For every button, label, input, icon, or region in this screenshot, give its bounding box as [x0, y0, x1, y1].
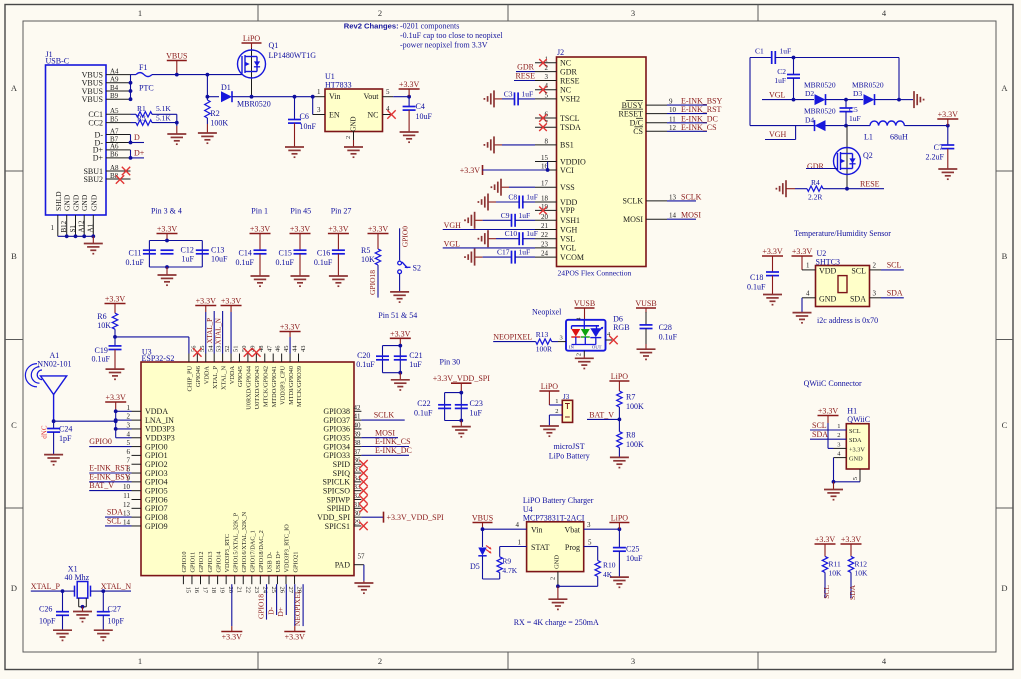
svg-text:+3.3V: +3.3V [105, 295, 126, 304]
svg-text:GPIO5: GPIO5 [145, 486, 168, 495]
svg-text:VGH: VGH [560, 225, 578, 234]
svg-text:RESE: RESE [860, 179, 880, 188]
pin 10 RESET of J2 [619, 109, 667, 118]
svg-text:44: 44 [292, 345, 299, 352]
svg-text:Vbat: Vbat [564, 526, 580, 535]
pin 5 Vout of U1 [383, 88, 412, 99]
capacitor C11 0.1uF [126, 249, 156, 268]
svg-text:U0RXD/GPIO44: U0RXD/GPIO44 [246, 365, 253, 410]
net label VGH (charge pump) [765, 126, 796, 140]
svg-text:D: D [134, 133, 140, 142]
svg-text:0.1uF: 0.1uF [747, 283, 766, 292]
svg-text:12: 12 [669, 124, 677, 132]
capacitor C10 1uF at J2 pin 22 [488, 229, 538, 245]
net label SDA at U3 pin 13 [105, 508, 132, 517]
svg-text:GPIO0: GPIO0 [145, 442, 168, 451]
svg-text:3: 3 [631, 8, 635, 18]
svg-text:+3.3V: +3.3V [390, 330, 411, 339]
svg-text:A8: A8 [110, 164, 119, 172]
svg-text:GPIO2: GPIO2 [145, 460, 168, 469]
svg-text:D1: D1 [221, 83, 231, 92]
node D+ (USB data plus) [129, 149, 145, 160]
capacitor C19 0.1uF [92, 345, 122, 363]
svg-text:NC: NC [367, 111, 378, 120]
svg-text:GPIO13: GPIO13 [207, 552, 214, 573]
svg-text:A5: A5 [110, 107, 119, 115]
capacitor C13 10uF [196, 245, 228, 263]
charger U4 MCP73831T-2ACI [527, 522, 584, 572]
pin 15 GPIO10 of U3 (bottom) [181, 552, 191, 594]
ground below C27 [94, 630, 113, 640]
svg-text:C15: C15 [279, 249, 292, 258]
ground below C15 [291, 254, 310, 286]
wire VBUS bus at J1 [129, 75, 136, 102]
svg-text:0.1uF: 0.1uF [236, 258, 255, 267]
svg-text:C21: C21 [409, 351, 422, 360]
resistor R10 4K [558, 561, 616, 587]
svg-text:10pF: 10pF [39, 617, 56, 626]
svg-text:3: 3 [587, 521, 591, 529]
ground below R2 [198, 124, 217, 143]
svg-text:GND: GND [554, 555, 561, 569]
svg-text:1: 1 [518, 538, 522, 546]
pin 42 GPIO38 of U3 [323, 404, 361, 416]
svg-text:VGL: VGL [560, 244, 577, 253]
svg-text:C14: C14 [239, 249, 252, 258]
svg-text:C24: C24 [59, 425, 72, 434]
ground below U4 [548, 586, 567, 609]
svg-text:Pin 45: Pin 45 [290, 207, 311, 216]
net label E-INK_CS at U3 pin 38 [361, 437, 410, 446]
pin 20 VSH1 of J2 [535, 213, 580, 225]
power VUSB at D6 [574, 299, 595, 320]
svg-text:40: 40 [354, 421, 362, 429]
svg-text:GPIO18/DAC_2: GPIO18/DAC_2 [258, 530, 265, 572]
sideways ground for C17 [465, 249, 475, 266]
pin 43 MTCK/GPIO39 of U3 (top) [296, 346, 307, 407]
svg-text:11: 11 [123, 492, 130, 500]
svg-text:VSH1: VSH1 [560, 216, 580, 225]
svg-text:10nF: 10nF [300, 122, 317, 131]
svg-text:SDA: SDA [850, 295, 866, 304]
pin 15 VDDIO of J2 [535, 154, 586, 166]
pin 28 GPIO21 of U3 (bottom) [292, 552, 302, 594]
wire antenna to U3 LNA_IN [52, 419, 118, 423]
pin 45 VDD3P3_CPU of U3 (top) [279, 346, 290, 405]
svg-text:+3.3V: +3.3V [792, 247, 813, 256]
svg-text:NN02-101: NN02-101 [37, 360, 71, 369]
svg-text:R12: R12 [855, 560, 868, 569]
ground below R8 [610, 457, 629, 467]
wire C20 C21 rails [383, 344, 403, 375]
svg-text:XTAL_N: XTAL_N [215, 318, 223, 345]
wire VCI to VDDIO [547, 162, 549, 171]
svg-text:GPIO4: GPIO4 [145, 478, 168, 487]
ground below D6 [575, 356, 594, 369]
resistor R12 10K [848, 556, 868, 600]
diode D2 MBR0520 [804, 80, 863, 105]
capacitor C7 2.2uF [926, 126, 955, 162]
pin 36 SPID of U3 [333, 457, 362, 469]
pin 47 MTCK/GPIO42 of U3 (top) [262, 345, 273, 407]
svg-text:VUSB: VUSB [574, 299, 595, 308]
LED D5 [470, 529, 492, 579]
resistor R11 10K [822, 556, 842, 598]
power +3.3V at U3 VDDA [105, 393, 126, 411]
pin 14 GPIO9 of U3 [123, 518, 168, 530]
svg-text:2.2R: 2.2R [808, 193, 822, 202]
svg-text:S2: S2 [413, 263, 421, 272]
no-connect X marks SBU1 SBU2 [116, 167, 130, 184]
inductor L1 68uH [864, 121, 950, 142]
svg-text:10pF: 10pF [108, 617, 125, 626]
svg-text:VBUS: VBUS [472, 514, 493, 523]
svg-text:20: 20 [541, 213, 549, 221]
svg-text:3: 3 [631, 656, 635, 666]
power LiPO at Q1 [242, 34, 262, 48]
pin 21 GPIO15/XTAL_32K_P of U3 (bottom) [232, 512, 242, 593]
pin 2 GND of U1 [345, 132, 354, 141]
pin 5 shield of H1 [832, 469, 860, 484]
svg-text:C9: C9 [501, 211, 510, 220]
svg-text:Pin 51 & 54: Pin 51 & 54 [378, 311, 417, 320]
pin 24 VCOM of J2 [535, 250, 584, 262]
pin 34 SPICLK of U3 [322, 474, 361, 486]
svg-text:5: 5 [127, 439, 131, 447]
pin 19 GPIO14 of U3 (bottom) [215, 551, 225, 593]
pin 2 GND of D6 [583, 351, 585, 356]
svg-text:57: 57 [358, 553, 366, 561]
wire R6 to U3 CHIP_PU [115, 337, 189, 354]
svg-text:BAT_V: BAT_V [589, 410, 614, 419]
capacitor C18 0.1uF [747, 272, 779, 292]
svg-text:J2: J2 [557, 48, 564, 57]
svg-text:STAT: STAT [531, 543, 550, 552]
svg-text:14: 14 [123, 518, 131, 526]
pin 30 VDD_SPI of U3 [317, 510, 361, 522]
svg-text:1uF: 1uF [409, 360, 422, 369]
svg-text:C1: C1 [755, 47, 764, 56]
svg-text:TSCL: TSCL [560, 114, 580, 123]
pin 17 GPIO12 of U3 (bottom) [198, 552, 208, 594]
svg-text:2: 2 [345, 136, 352, 139]
ground below C11-C13 [158, 267, 177, 285]
svg-text:D3: D3 [853, 89, 862, 98]
power +3.3V for C11-C13 [157, 225, 178, 243]
svg-text:GPIO45: GPIO45 [237, 366, 244, 387]
wire charge pump left rail [749, 58, 751, 126]
no-connect X on J2 pin 1 [539, 59, 547, 67]
power +3.3V at R11 [815, 535, 836, 556]
svg-text:USB D-: USB D- [267, 552, 274, 572]
svg-text:B8: B8 [110, 172, 119, 180]
svg-text:10K: 10K [97, 321, 111, 330]
svg-text:3: 3 [545, 73, 549, 81]
svg-text:-power neopixel from 3.3V: -power neopixel from 3.3V [400, 40, 488, 49]
ground below C14 [251, 254, 270, 286]
svg-text:48: 48 [258, 346, 265, 353]
svg-text:2: 2 [550, 577, 557, 580]
svg-text:SPID: SPID [333, 460, 351, 469]
svg-text:10uF: 10uF [211, 255, 228, 264]
power +3.3V at U1 output [399, 80, 420, 97]
svg-text:IN: IN [569, 344, 575, 349]
svg-text:+3.3V: +3.3V [106, 393, 127, 402]
svg-text:SPICS1: SPICS1 [325, 522, 350, 531]
capacitor C4 10uF [403, 97, 433, 121]
svg-text:9: 9 [669, 98, 673, 106]
svg-text:1: 1 [138, 656, 142, 666]
net label SCL at U3 pin 14 [105, 517, 132, 526]
pin 51 VDDA of U3 (top) [229, 346, 240, 385]
pin 5 GPIO0 of U3 [127, 439, 168, 451]
net label SCL at H1 pin 1 [810, 421, 846, 430]
svg-text:SCL: SCL [812, 421, 827, 430]
svg-text:MOSI: MOSI [375, 428, 395, 437]
capacitor C3 1uF at J2 pin 5 [494, 89, 535, 105]
pin 18 VDD of J2 [535, 195, 578, 207]
pin 10 GPIO5 of U3 [123, 483, 168, 495]
svg-text:15: 15 [541, 154, 549, 162]
power +3.3V for C16 [328, 225, 349, 251]
svg-text:R2: R2 [210, 109, 219, 118]
svg-text:A9: A9 [110, 76, 119, 84]
pin 41 GPIO37 of U3 [323, 413, 361, 425]
net label RESE at Q2 source [860, 179, 884, 188]
svg-text:1uF: 1uF [780, 47, 792, 56]
pin 56 CHIP_PU of U3 (top) [187, 345, 198, 392]
svg-text:2: 2 [127, 413, 131, 421]
svg-text:A4: A4 [110, 67, 119, 75]
ground below C28 [637, 344, 656, 359]
svg-text:2: 2 [378, 656, 382, 666]
svg-text:GPIO34: GPIO34 [323, 442, 350, 451]
power +3.3V_VDD_SPI [433, 374, 491, 393]
pin 35 SPIQ of U3 [333, 466, 362, 478]
svg-text:Pin 1: Pin 1 [251, 207, 268, 216]
svg-text:XTAL_N: XTAL_N [220, 366, 227, 390]
svg-text:LiPO: LiPO [243, 34, 261, 43]
net label SCLK at U3 pin 41 [361, 411, 404, 420]
sideways ground at J2 pin 17 [491, 179, 535, 196]
svg-text:A12: A12 [78, 220, 86, 233]
power LiPO at R7 [609, 372, 629, 391]
wire D+ at U3 bottom [276, 584, 286, 616]
svg-text:+3.3V: +3.3V [399, 80, 420, 89]
svg-text:VDD3P3: VDD3P3 [145, 425, 175, 434]
capacitor C24 1pF [41, 421, 73, 454]
svg-text:C22: C22 [417, 399, 430, 408]
svg-text:TSDA: TSDA [560, 123, 581, 132]
pin 27 VDD3P3_RTC_IO of U3 (bottom) [284, 524, 294, 594]
pin 7 GPIO2 of U3 [127, 457, 168, 469]
pin 49 U0RXD/GPIO44 of U3 (top) [246, 346, 257, 410]
svg-text:1: 1 [317, 88, 321, 96]
wire D- at U3 bottom [267, 584, 277, 615]
svg-text:LiPO: LiPO [611, 514, 629, 523]
switch S2 [398, 261, 421, 292]
svg-text:CHIP_PU: CHIP_PU [187, 366, 194, 392]
capacitor C27 10pF [97, 591, 125, 630]
pin 13 GPIO8 of U3 [123, 510, 168, 522]
svg-text:5: 5 [386, 88, 390, 96]
node XTAL_P wire at U3 top [206, 311, 214, 354]
svg-text:SBU2: SBU2 [83, 175, 103, 184]
svg-text:LNA_IN: LNA_IN [145, 416, 174, 425]
pin 1 of J3 [549, 398, 562, 405]
svg-text:22: 22 [541, 231, 549, 239]
pin 9 GPIO4 of U3 [127, 474, 168, 486]
svg-text:1: 1 [555, 398, 558, 405]
pin 1 NC of J2 [535, 55, 571, 67]
svg-text:24: 24 [261, 587, 268, 594]
wire GPIO18 at U3 bottom [256, 584, 266, 619]
pin 1 Vin of U1 [311, 88, 325, 99]
svg-text:20: 20 [227, 587, 234, 594]
svg-text:+3.3V: +3.3V [849, 446, 865, 453]
svg-text:1uF: 1uF [519, 211, 531, 220]
svg-text:42: 42 [354, 404, 362, 412]
pin 39 GPIO35 of U3 [323, 430, 361, 442]
pin 55 GPIO46 of U3 (top) [195, 346, 206, 388]
net label SCLK [667, 192, 702, 201]
svg-text:E-INK_BSY: E-INK_BSY [89, 472, 131, 481]
microcontroller U3 ESP32-S2 [141, 348, 354, 576]
svg-text:10uF: 10uF [416, 112, 433, 121]
svg-text:Prog: Prog [565, 543, 580, 552]
svg-text:0.1uF: 0.1uF [276, 258, 295, 267]
svg-text:GPIO10: GPIO10 [181, 552, 188, 573]
svg-text:GND: GND [63, 194, 72, 211]
pin 18 GPIO13 of U3 (bottom) [207, 552, 217, 594]
pin 12 GPIO7 of U3 [123, 501, 168, 513]
pin 23 GPIO17/DAC_1 of U3 (bottom) [250, 530, 260, 593]
svg-text:GPIO0: GPIO0 [89, 437, 112, 446]
pin 7 TSDA of J2 [535, 120, 581, 132]
svg-text:SCL: SCL [851, 267, 866, 276]
capacitor C8 1uF at J2 pin 18 [488, 193, 538, 209]
power VBUS [166, 52, 187, 77]
svg-text:R6: R6 [97, 312, 106, 321]
svg-text:SCL: SCL [887, 261, 902, 270]
pin 57 PAD of U3 [335, 553, 365, 581]
svg-text:45: 45 [283, 346, 290, 353]
svg-text:D5: D5 [470, 562, 480, 571]
capacitor C26 10pF [39, 591, 69, 630]
svg-text:BAT_V: BAT_V [89, 481, 114, 490]
svg-text:10K: 10K [361, 255, 375, 264]
svg-text:NEOPIXEL: NEOPIXEL [293, 589, 302, 626]
svg-text:MTDI/GPIO40: MTDI/GPIO40 [288, 366, 295, 405]
svg-text:+3.3V_VDD_SPI: +3.3V_VDD_SPI [433, 374, 491, 383]
svg-text:SCL: SCL [822, 585, 831, 599]
transistor Q1 LP1480WT1G [238, 41, 317, 97]
svg-text:16: 16 [193, 587, 200, 594]
svg-text:NEOPIXEL: NEOPIXEL [493, 332, 532, 341]
sideways ground for C9 [465, 212, 475, 229]
svg-text:A7: A7 [110, 127, 119, 135]
svg-text:USB D+: USB D+ [275, 550, 282, 572]
resistor R9 4.7K [483, 557, 518, 580]
wire R5 to GPIO18 [368, 265, 378, 298]
svg-text:GPIO18: GPIO18 [368, 270, 377, 295]
svg-text:41: 41 [354, 413, 362, 421]
svg-text:100K: 100K [626, 440, 644, 449]
svg-text:1: 1 [837, 423, 840, 430]
pin 13 SCLK of J2 [623, 197, 667, 206]
pin 8 BS1 of J2 [535, 137, 574, 149]
power +3.3V for C14 [250, 225, 271, 251]
svg-text:SCLK: SCLK [374, 411, 395, 420]
svg-text:C3: C3 [504, 89, 513, 98]
svg-text:VSL: VSL [560, 235, 575, 244]
svg-text:+3.3V: +3.3V [157, 225, 178, 234]
svg-text:43: 43 [300, 346, 307, 353]
svg-text:B12: B12 [60, 220, 68, 232]
svg-text:Vin: Vin [531, 526, 543, 535]
svg-text:+3.3V: +3.3V [841, 535, 862, 544]
svg-text:+3.3V: +3.3V [815, 535, 836, 544]
net label BAT_V at U3 pin 10 [89, 481, 131, 490]
capacitor C22 0.1uF [414, 399, 451, 417]
svg-text:VDD: VDD [819, 267, 837, 276]
pin 2 SCL of U2 [870, 261, 904, 270]
node D (USB data minus) [129, 133, 144, 144]
svg-text:10: 10 [669, 106, 677, 114]
svg-text:17: 17 [202, 587, 209, 594]
power LiPO at J3 [539, 382, 559, 405]
pin 53 XTAL_P of U3 (top) [212, 346, 223, 389]
capacitor C17 1uF at J2 pin 24 [475, 248, 535, 264]
pin 52 XTAL_N of U3 (top) [220, 346, 231, 390]
wire +3.3V at U3 bottom VDD3P3_RTC [221, 584, 242, 641]
svg-text:GPIO46: GPIO46 [195, 366, 202, 387]
svg-text:GPIO36: GPIO36 [323, 425, 350, 434]
net label E-INK_RST [667, 105, 722, 114]
svg-text:-0.1uF cap too close to neopix: -0.1uF cap too close to neopixel [400, 31, 503, 40]
svg-text:4: 4 [127, 430, 131, 438]
svg-text:19: 19 [219, 587, 226, 594]
svg-text:MBR0520: MBR0520 [852, 80, 884, 89]
svg-text:13: 13 [123, 510, 131, 518]
pin 3 Vbat of U4 [584, 521, 622, 531]
resistor R6 10K [97, 312, 117, 346]
svg-text:R5: R5 [361, 246, 370, 255]
pin 4 GND of H1 [834, 451, 847, 482]
pin 4 VDD3P3 of U3 [127, 430, 175, 442]
svg-text:R7: R7 [626, 393, 635, 402]
svg-text:XTAL_P: XTAL_P [31, 582, 61, 591]
pin 48 U0TXD/GPIO43 of U3 (top) [254, 346, 265, 410]
no-connect X marks U3 top pins [193, 348, 260, 356]
wire Q1 drain junction [206, 75, 220, 99]
ground below U1 [344, 140, 363, 157]
ground below U2 [793, 313, 812, 323]
pin 9 BUSY of J2 [622, 101, 667, 110]
svg-text:VDD_SPI: VDD_SPI [317, 513, 350, 522]
pin 50 GPIO45 of U3 (top) [237, 346, 248, 388]
diode D1 MBR0520 [221, 83, 313, 109]
pin 12 CS of J2 [633, 127, 667, 136]
svg-text:VGL: VGL [444, 239, 461, 248]
power +3.3V at charge pump output [937, 110, 958, 125]
pin 16 GPIO11 of U3 (bottom) [190, 552, 200, 594]
svg-text:C23: C23 [470, 399, 483, 408]
svg-text:C: C [11, 420, 17, 430]
svg-text:1: 1 [138, 8, 142, 18]
resistor R13 100R [536, 330, 566, 354]
net label NEOPIXEL [493, 332, 536, 341]
